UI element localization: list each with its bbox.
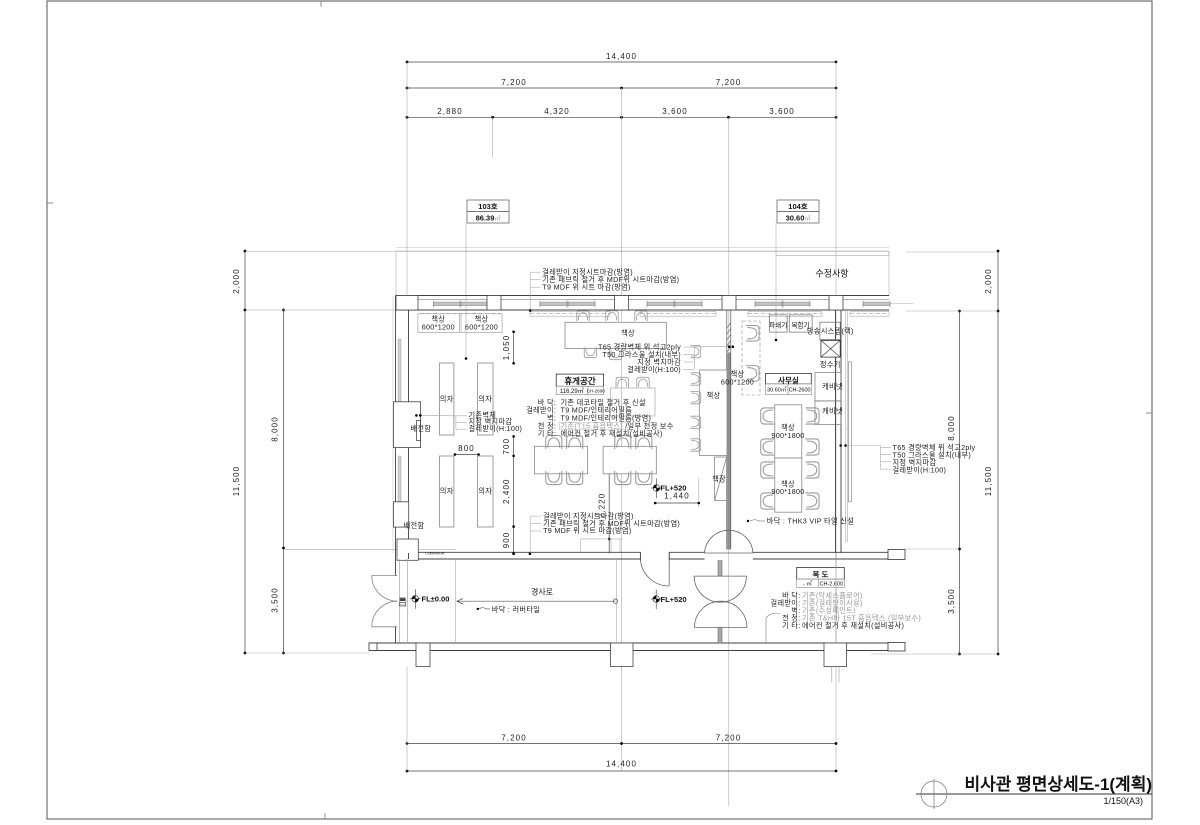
svg-text:걸레받이(H:100): 걸레받이(H:100)	[893, 465, 947, 474]
svg-text:의자: 의자	[440, 487, 454, 496]
svg-text:CH-2600: CH-2600	[789, 388, 811, 394]
svg-text:기 타:: 기 타:	[538, 429, 556, 438]
svg-text:바닥 : 러버타일: 바닥 : 러버타일	[492, 605, 540, 614]
svg-text:CORRIDOR: CORRIDOR	[425, 552, 445, 556]
svg-text:의자: 의자	[440, 395, 454, 404]
svg-text:2,000: 2,000	[232, 268, 241, 294]
svg-text:배전함: 배전함	[404, 521, 425, 530]
svg-text:3,600: 3,600	[769, 107, 795, 116]
svg-text:걸레받이(H:100): 걸레받이(H:100)	[469, 424, 523, 433]
svg-text:- ㎡: - ㎡	[803, 579, 812, 587]
svg-text:600*1200: 600*1200	[422, 322, 455, 331]
svg-text:2,880: 2,880	[437, 107, 463, 116]
svg-text:7,200: 7,200	[501, 734, 527, 743]
svg-text:기 타:: 기 타:	[782, 621, 800, 630]
svg-text:11,500: 11,500	[232, 466, 241, 496]
svg-text:책장: 책장	[712, 475, 726, 484]
svg-text:T9 MDF 위 시트 마감(방염): T9 MDF 위 시트 마감(방염)	[542, 283, 630, 292]
svg-text:에어컨 철거 후 재설치(설비공사): 에어컨 철거 후 재설치(설비공사)	[802, 621, 904, 630]
svg-text:800: 800	[458, 444, 475, 453]
svg-text:7,200: 7,200	[501, 78, 527, 87]
svg-text:방송시스템(랙): 방송시스템(랙)	[807, 327, 854, 336]
svg-text:비사관 평면상세도-1(계획): 비사관 평면상세도-1(계획)	[964, 775, 1152, 794]
svg-text:걸레받이(H:100): 걸레받이(H:100)	[627, 365, 681, 374]
svg-text:103호: 103호	[478, 201, 498, 211]
svg-text:3,600: 3,600	[662, 107, 688, 116]
svg-text:바닥 : THK3 VIP 타일 신설: 바닥 : THK3 VIP 타일 신설	[767, 517, 854, 526]
svg-text:캐비넷: 캐비넷	[822, 407, 843, 416]
svg-text:700: 700	[502, 438, 511, 455]
svg-text:116.29㎡: 116.29㎡	[560, 387, 584, 395]
svg-text:복 도: 복 도	[813, 569, 829, 579]
svg-text:1/150(A3): 1/150(A3)	[1103, 796, 1143, 806]
svg-text:3,500: 3,500	[947, 588, 956, 614]
svg-text:CH-2600: CH-2600	[587, 388, 606, 393]
svg-text:8,000: 8,000	[947, 415, 956, 441]
svg-text:수정사항: 수정사항	[815, 269, 848, 279]
svg-text:11,500: 11,500	[984, 466, 993, 496]
svg-text:1,440: 1,440	[664, 491, 690, 500]
svg-text:파쇄기: 파쇄기	[769, 321, 787, 330]
svg-text:휴게공간: 휴게공간	[564, 376, 595, 386]
svg-text:14,400: 14,400	[606, 760, 637, 769]
svg-text:정수기: 정수기	[820, 360, 841, 369]
svg-text:1,050: 1,050	[502, 335, 511, 361]
svg-text:104호: 104호	[788, 201, 808, 211]
svg-text:7,200: 7,200	[716, 734, 742, 743]
svg-text:FL+520: FL+520	[661, 595, 687, 604]
svg-text:2,400: 2,400	[502, 478, 511, 504]
svg-text:에어컨 철거 후 재설치(설비공사): 에어컨 철거 후 재설치(설비공사)	[561, 429, 663, 438]
svg-text:FL±0.00: FL±0.00	[422, 594, 450, 603]
svg-text:600*1200: 600*1200	[465, 322, 498, 331]
svg-text:900*1800: 900*1800	[771, 487, 804, 496]
svg-text:책상: 책상	[707, 391, 721, 400]
svg-text:의자: 의자	[478, 395, 492, 404]
svg-text:캐비넷: 캐비넷	[822, 382, 843, 391]
svg-text:CH-2,600: CH-2,600	[820, 581, 844, 587]
svg-text:T9 MDF 위 시트 마감(방염): T9 MDF 위 시트 마감(방염)	[543, 526, 631, 535]
svg-text:사무실: 사무실	[778, 375, 799, 385]
svg-text:7,200: 7,200	[716, 78, 742, 87]
svg-text:600*1200: 600*1200	[721, 378, 754, 387]
svg-text:8,000: 8,000	[271, 416, 280, 442]
svg-text:900*1800: 900*1800	[771, 431, 804, 440]
svg-text:경사로: 경사로	[531, 587, 553, 597]
svg-text:3,500: 3,500	[271, 587, 280, 613]
svg-text:900: 900	[502, 532, 511, 549]
svg-text:30.60㎡: 30.60㎡	[767, 386, 787, 394]
svg-text:4,320: 4,320	[544, 107, 570, 116]
svg-text:배전함: 배전함	[410, 424, 431, 433]
svg-text:2,000: 2,000	[984, 268, 993, 294]
svg-text:14,400: 14,400	[606, 52, 637, 61]
svg-text:책상: 책상	[621, 328, 635, 337]
svg-text:의자: 의자	[478, 487, 492, 496]
